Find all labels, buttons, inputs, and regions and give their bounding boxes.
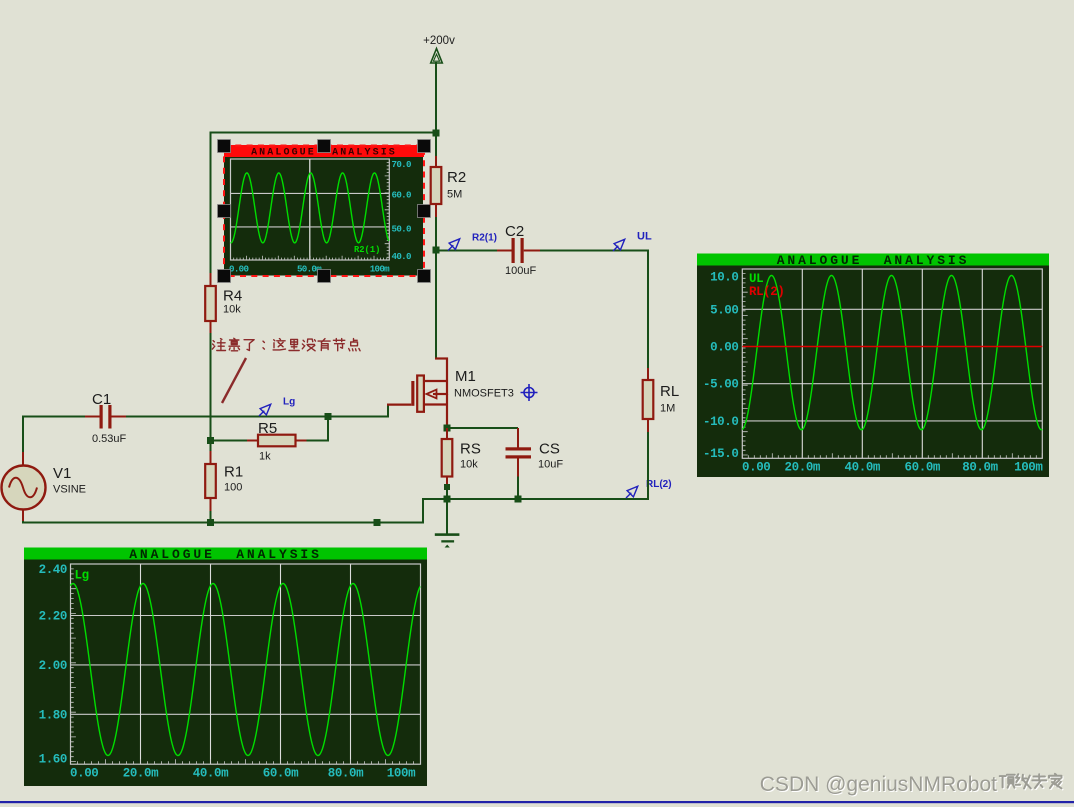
probe Lg — [259, 411, 264, 416]
source V1 pin top — [22, 452, 24, 466]
graph2 gridlines — [742, 308, 1042, 310]
window bottom blue line — [0, 801, 1074, 803]
power symbol +200v arrow — [431, 49, 443, 64]
transistor M1 source arrow — [427, 390, 437, 399]
svg-text:2.00: 2.00 — [39, 659, 67, 673]
capacitor C1 — [85, 416, 100, 418]
svg-text:VSINE: VSINE — [53, 484, 86, 496]
svg-text:10k: 10k — [460, 459, 478, 471]
graph1 trace R2(1) sine — [231, 173, 389, 243]
origin marker — [524, 388, 534, 398]
graph2 x-axis ticks — [742, 453, 1042, 458]
node junction gate/R5 — [325, 413, 332, 420]
svg-text:RL(2): RL(2) — [749, 285, 785, 299]
wire rail under R2 — [435, 133, 437, 250]
node junction rail/C2 branch — [433, 247, 440, 254]
wire R4 vertical upper — [210, 132, 212, 442]
graph3 gridlines — [71, 615, 421, 617]
svg-text:Lg: Lg — [75, 569, 89, 583]
node junction R1 bottom — [207, 519, 214, 526]
svg-text:V1: V1 — [53, 465, 71, 482]
wire gate riser — [387, 406, 389, 418]
svg-text:40.0m: 40.0m — [193, 766, 229, 780]
graph1 plot frame — [231, 159, 390, 260]
probe R2(1) — [448, 245, 453, 250]
svg-text:20.0m: 20.0m — [785, 460, 821, 474]
wire R5 right riser — [327, 417, 329, 442]
svg-text:+200v: +200v — [423, 35, 455, 47]
svg-text:RS: RS — [460, 441, 481, 458]
svg-text:-5.00: -5.00 — [703, 378, 739, 392]
wire gate horizontal — [126, 416, 389, 418]
node junction RS/source rail — [444, 496, 451, 503]
wire C2 right to RL corner — [540, 250, 649, 252]
graph window 2 plot background — [697, 266, 1049, 478]
svg-text:10.0: 10.0 — [710, 271, 738, 285]
graph window 2 title bar — [697, 254, 1049, 266]
transistor M1 source drop — [446, 394, 448, 428]
svg-text:R5: R5 — [258, 420, 277, 437]
node junction source node — [444, 425, 451, 432]
node junction CS/source rail — [515, 496, 522, 503]
resistor RS — [446, 428, 448, 439]
resistor R5 — [247, 440, 258, 442]
svg-text:1k: 1k — [259, 451, 271, 463]
wire C2 left — [436, 250, 497, 252]
graph1 gridline 60.0 — [231, 192, 390, 194]
transistor M1 gate bar — [411, 381, 414, 406]
svg-text:R4: R4 — [223, 288, 242, 305]
graph1 x-axis ticks — [231, 256, 387, 260]
svg-text:2.20: 2.20 — [39, 610, 67, 624]
svg-text:100m: 100m — [370, 263, 390, 274]
graph1 y-axis ticks — [385, 159, 390, 257]
wire bottom rail — [22, 521, 24, 524]
svg-text:1.60: 1.60 — [39, 753, 67, 767]
transistor M1 channel bar — [417, 376, 424, 412]
svg-text:R2(1): R2(1) — [354, 245, 380, 255]
graph1 selection handle bottom-right — [418, 270, 431, 283]
svg-text:100m: 100m — [1014, 460, 1043, 474]
wire CS bottom — [517, 477, 519, 500]
wire V1 top drop — [22, 416, 24, 453]
graph3 x-axis ticks — [71, 759, 421, 764]
probe RL(2) — [626, 493, 631, 498]
graph2 y-axis ticks — [742, 269, 747, 455]
transistor M1 source stub — [424, 403, 447, 405]
svg-text:0.53uF: 0.53uF — [92, 433, 127, 445]
transistor M1 bulk stub — [433, 393, 447, 395]
svg-text:0.00: 0.00 — [229, 263, 248, 274]
svg-text:-10.0: -10.0 — [703, 415, 739, 429]
svg-text:60.0m: 60.0m — [905, 460, 941, 474]
svg-text:70.0: 70.0 — [392, 159, 411, 170]
wire R5 to riser — [305, 440, 329, 442]
graph1 gridline vertical 50m — [309, 159, 311, 260]
svg-text:CSDN @geniusNMRobot: CSDN @geniusNMRobot — [760, 773, 997, 796]
capacitor C2 — [497, 250, 512, 252]
wire under RL — [647, 251, 649, 499]
graph3 trace Lg sine — [71, 584, 421, 756]
source V1 pin bottom — [22, 510, 24, 523]
node junction rail/top wire — [433, 130, 440, 137]
svg-text:CS: CS — [539, 441, 560, 458]
svg-text:0.00: 0.00 — [742, 460, 770, 474]
wire RL bottom vertical — [647, 432, 649, 500]
svg-text:M1: M1 — [455, 368, 476, 385]
graph1 selection handle top-center — [318, 140, 331, 153]
svg-text:1.80: 1.80 — [39, 708, 67, 722]
graph2 trace UL sine — [742, 276, 1042, 430]
svg-text:80.0m: 80.0m — [328, 766, 364, 780]
graph1 selection handle bottom-center — [318, 270, 331, 283]
graph1 selection handle top-right — [418, 140, 431, 153]
graph window 1 plot background — [224, 157, 423, 276]
wire node A to R5 — [211, 440, 249, 442]
node junction RS pin end — [444, 484, 450, 490]
wire +200v rail vertical — [435, 62, 437, 156]
graph1 selection dashed border — [224, 146, 424, 277]
svg-text:NMOSFET3: NMOSFET3 — [454, 388, 514, 400]
wire source to CS — [447, 427, 518, 429]
svg-text:80.0m: 80.0m — [962, 460, 998, 474]
transistor M1 drain riser — [446, 358, 448, 396]
wire bottom step up — [422, 499, 424, 524]
annotation pointer line — [222, 358, 246, 403]
probe UL — [613, 246, 618, 251]
svg-text:40.0: 40.0 — [392, 251, 411, 262]
svg-text:C1: C1 — [92, 391, 111, 408]
wire top horizontal from R4 rail to +200v rail — [211, 132, 437, 134]
svg-text:100: 100 — [224, 482, 242, 494]
svg-text:Lg: Lg — [283, 397, 295, 408]
wire source rail horizontal — [422, 498, 648, 500]
graph2 plot frame — [742, 269, 1042, 458]
wire ground drop — [446, 499, 448, 534]
graph1 selection handle bottom-left — [218, 270, 231, 283]
graph window 3 title bar — [24, 548, 427, 560]
wire under R1 — [210, 441, 212, 522]
graph window 1 title bar (selected, red) — [224, 145, 424, 157]
svg-text:ANALOGUE ANALYSIS: ANALOGUE ANALYSIS — [129, 547, 322, 562]
wire RS bottom — [446, 487, 448, 499]
svg-text:10uF: 10uF — [538, 459, 563, 471]
svg-text:5.00: 5.00 — [710, 303, 738, 317]
svg-text:20.0m: 20.0m — [123, 766, 159, 780]
resistor R1 — [210, 451, 212, 464]
svg-text:R2(1): R2(1) — [472, 233, 497, 244]
capacitor CS — [517, 428, 519, 448]
svg-text:RL: RL — [660, 383, 679, 400]
svg-text:-15.0: -15.0 — [703, 447, 739, 461]
svg-text:RL(2): RL(2) — [646, 479, 672, 490]
svg-text:100uF: 100uF — [505, 265, 536, 277]
transistor M1 gate pin — [387, 404, 411, 406]
wire drain vertical — [435, 250, 437, 359]
resistor R2 — [435, 156, 437, 167]
svg-text:40.0m: 40.0m — [845, 460, 881, 474]
graph1 selection handle top-left — [218, 140, 231, 153]
graph1 gridline 50.0 — [231, 226, 390, 228]
graph3 y-axis ticks — [71, 564, 76, 762]
svg-text:0.00: 0.00 — [70, 766, 98, 780]
svg-text:ANALOGUE ANALYSIS: ANALOGUE ANALYSIS — [777, 253, 970, 268]
svg-text:50.0: 50.0 — [392, 224, 411, 235]
wire R1 bottom — [210, 511, 212, 522]
graph window 3 plot background — [24, 560, 427, 787]
svg-text:60.0m: 60.0m — [263, 766, 299, 780]
graph2 trace RL(2) flat red — [742, 346, 1042, 348]
resistor R4 — [210, 273, 212, 286]
svg-text:R1: R1 — [224, 464, 243, 481]
resistor RL — [647, 368, 649, 380]
source V1 VSINE — [2, 466, 46, 510]
transistor M1 drain stub — [424, 380, 447, 382]
wire input horizontal — [23, 416, 85, 418]
svg-text:UL: UL — [637, 231, 652, 243]
svg-text:2.40: 2.40 — [39, 563, 67, 577]
svg-text:C2: C2 — [505, 223, 524, 240]
svg-text:R2: R2 — [447, 169, 466, 186]
node junction bias node A — [207, 437, 214, 444]
graph1 selection handle mid-right — [418, 205, 431, 218]
ground symbol — [435, 533, 460, 536]
svg-text:60.0: 60.0 — [392, 190, 411, 201]
annotation text 注意了：这里没有节点 — [212, 339, 225, 351]
svg-text:100m: 100m — [387, 766, 416, 780]
node junction stray on bottom wire — [374, 519, 381, 526]
svg-text:5M: 5M — [447, 189, 462, 201]
graph1 selection handle mid-left — [218, 205, 231, 218]
graph3 plot frame — [71, 564, 421, 764]
svg-text:0.00: 0.00 — [710, 341, 738, 355]
svg-text:10k: 10k — [223, 304, 241, 316]
svg-text:1M: 1M — [660, 403, 675, 415]
